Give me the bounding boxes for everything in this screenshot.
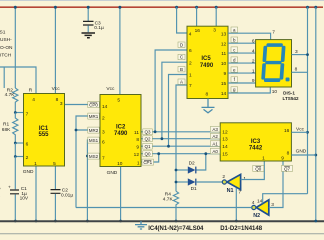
svg-text:B: B [180, 67, 183, 72]
input label box A3 [210, 126, 220, 132]
svg-text:S1: S1 [0, 30, 6, 36]
wire: R2 branch from Vcc rail down to pin7 node [14, 7, 16, 88]
node: N1 gnd junction [235, 220, 238, 223]
svg-text:MR1: MR1 [89, 114, 99, 119]
ground symbol on ground rail [135, 221, 147, 229]
node: rail junction IC5 pin3 [215, 6, 218, 9]
svg-text:7: 7 [238, 190, 241, 196]
node: rail junction R2 [14, 6, 17, 9]
svg-text:1: 1 [252, 68, 255, 74]
wire: segment d [228, 62, 256, 64]
wire: segment b [228, 42, 256, 44]
op IC5 7490 box [187, 26, 228, 98]
wire: right GND line from rail down to ground rail [315, 7, 317, 221]
node: D2 anode junction [175, 169, 178, 172]
svg-text:1: 1 [262, 156, 265, 162]
wire: N2 Vcc pin 14 riser to right Vcc line [263, 194, 308, 204]
seven segment digit 8 [261, 43, 286, 82]
svg-text:2: 2 [222, 174, 225, 180]
segment label box e [231, 67, 238, 72]
svg-text:16: 16 [284, 128, 290, 134]
wire: R2 to node pin7 [14, 103, 16, 113]
svg-text:14: 14 [102, 104, 108, 110]
node: pin2/C1 junction [14, 155, 17, 158]
svg-text:CP0: CP0 [89, 103, 98, 108]
svg-text:16: 16 [195, 28, 201, 34]
wire: D2 cathode riser to A0 bus [196, 154, 206, 170]
svg-text:7: 7 [102, 156, 105, 162]
svg-text:Vcc: Vcc [106, 86, 115, 92]
svg-text:3: 3 [60, 101, 63, 107]
input label box MR2 [88, 127, 100, 133]
op IC3 7442 box [220, 123, 291, 161]
svg-text:10: 10 [272, 89, 278, 95]
svg-text:GND: GND [296, 149, 307, 155]
wire: down to pin 2 node [14, 143, 16, 157]
svg-text:6: 6 [102, 140, 105, 146]
svg-text:IC2: IC2 [116, 125, 126, 131]
svg-text:12: 12 [222, 130, 228, 136]
wire: IC2 MR2 [76, 129, 100, 131]
svg-text:IC3: IC3 [251, 139, 261, 145]
wire: IC1 pin 5 down to C2 [54, 166, 56, 189]
segment label box d [231, 57, 238, 62]
wire: C3 to ground symbol [87, 26, 89, 33]
svg-text:MR2: MR2 [89, 128, 99, 133]
node: rail junction right Vcc line [306, 6, 309, 9]
capacitor C3 [83, 21, 94, 25]
segment label box g [231, 87, 238, 92]
node: IC3 Vcc junction [306, 131, 309, 134]
wire: segment c [228, 52, 256, 54]
svg-text:2: 2 [102, 116, 105, 122]
svg-text:A: A [180, 79, 183, 84]
node: pin1 ground junction [35, 220, 38, 223]
output label box Q0 (negated) [253, 165, 264, 171]
svg-text:ITCH: ITCH [0, 52, 12, 58]
segment label box f [231, 77, 238, 82]
svg-text:3: 3 [213, 27, 216, 33]
wire: IC1 pin 1 to ground rail [35, 166, 37, 221]
node: R2/R1/pin7 junction [14, 111, 17, 114]
svg-text:11: 11 [221, 51, 226, 57]
input label box MS1 [88, 137, 100, 143]
wire: IC5 pin4 feed from rail [177, 7, 187, 33]
svg-text:3: 3 [102, 130, 105, 136]
wire: C2 to ground rail [54, 194, 56, 221]
svg-text:12: 12 [221, 41, 227, 47]
svg-text:68K: 68K [2, 127, 11, 133]
node: rail junction IC1 Vcc [54, 6, 57, 9]
svg-text:1: 1 [34, 161, 37, 167]
svg-text:B: B [0, 186, 1, 192]
node: Q1 tap [167, 145, 170, 148]
resistor R1 [13, 113, 18, 144]
svg-text:Vcc: Vcc [296, 127, 305, 133]
node: D2/A0 junction [204, 152, 207, 155]
capacitor C2 [51, 190, 61, 194]
input label box A1 [210, 141, 220, 147]
svg-text:9: 9 [224, 71, 227, 77]
node: rail junction right line 2 [314, 6, 317, 9]
svg-text:6: 6 [252, 38, 255, 44]
wire: Vcc rail to IC2 pin 5 [119, 7, 121, 94]
svg-text:IC4(N1-N2)=74LS04: IC4(N1-N2)=74LS04 [148, 226, 204, 232]
node: MS junction [86, 155, 89, 158]
svg-text:9: 9 [252, 78, 255, 84]
output label box Q1 [143, 143, 153, 149]
svg-text:5: 5 [117, 97, 120, 103]
svg-text:LTS542: LTS542 [283, 96, 299, 101]
svg-text:7: 7 [189, 83, 192, 89]
node: rail junction IC5 pin16 [195, 6, 198, 9]
input label box A0 [210, 148, 220, 154]
wire: S1 stub at left edge [3, 67, 5, 88]
segment label box c [231, 47, 238, 52]
svg-text:R: R [29, 88, 33, 94]
op IC1 555 box [24, 94, 65, 167]
svg-text:3: 3 [295, 49, 298, 55]
output label box Q7 (negated) [282, 165, 293, 171]
svg-text:7490: 7490 [114, 131, 128, 137]
svg-text:4.7K: 4.7K [163, 196, 174, 202]
node: MR junction [75, 129, 78, 132]
svg-text:Q3: Q3 [144, 130, 151, 135]
node: pin10 ground junction [119, 220, 122, 223]
svg-text:DIS-1: DIS-1 [283, 90, 295, 95]
wire: bus Q2/A2 [141, 138, 220, 140]
svg-text:7442: 7442 [249, 145, 263, 151]
svg-text:A0: A0 [212, 149, 218, 154]
svg-text:8: 8 [287, 150, 290, 156]
wire: riser Q3 to IC5 input D [155, 50, 187, 132]
wire: IC2 MS1 and riser to ground rail [87, 140, 100, 221]
svg-text:Q0: Q0 [144, 152, 151, 157]
node: MS ground junction [86, 220, 89, 223]
wire: display pin 3 to Vcc line [292, 54, 308, 56]
wire: segment g to display pin10 [228, 87, 270, 93]
wire: IC2 pin 10 to ground rail [120, 167, 122, 222]
node: display anode junction [306, 53, 309, 56]
svg-text:7490: 7490 [200, 63, 214, 69]
svg-text:12: 12 [134, 152, 140, 158]
input label box CP0 (negated) [88, 102, 100, 108]
wire: riser IC5 input A down to diode junction and ground [176, 85, 187, 191]
svg-text:2: 2 [252, 58, 255, 64]
node: C1 ground junction [14, 220, 17, 223]
svg-text:D2: D2 [189, 161, 195, 167]
input label box A [178, 79, 185, 84]
wire: D2 anode [176, 169, 188, 171]
svg-text:MS1: MS1 [89, 138, 99, 143]
wire: N2 input from IC3 Q7 [269, 161, 283, 208]
svg-text:14: 14 [257, 198, 263, 204]
svg-text:GND: GND [23, 169, 34, 175]
svg-text:R1: R1 [3, 122, 9, 128]
svg-text:1: 1 [189, 73, 192, 79]
svg-text:10: 10 [221, 61, 227, 67]
node: rail junction C3 [87, 6, 90, 9]
svg-text:13: 13 [221, 31, 227, 37]
wire: IC5 pin3 feed from rail [215, 7, 217, 26]
node: rail junction IC5 pin4 [175, 6, 178, 9]
svg-text:0.01µ: 0.01µ [61, 192, 73, 198]
node: CP1/Q0 junction [157, 152, 160, 155]
svg-text:A1: A1 [212, 141, 218, 146]
wire: riser Q1 to IC5 input B [169, 75, 188, 147]
diode D1 [188, 178, 196, 185]
svg-text:14: 14 [222, 144, 228, 150]
wire: IC3 Vcc to right line [291, 131, 307, 133]
output label box Q0 [143, 151, 153, 157]
wire: right Vcc line from rail down to N2 Vcc branch [307, 7, 309, 194]
bubble N1 output [222, 180, 226, 184]
wire: N1 input from IC3 Q0 [241, 161, 265, 180]
svg-text:1: 1 [137, 160, 140, 166]
svg-text:9: 9 [281, 156, 284, 162]
input label box MR1 [88, 113, 100, 119]
svg-text:4: 4 [32, 97, 35, 103]
svg-text:6: 6 [26, 142, 29, 148]
svg-text:IC1: IC1 [39, 126, 49, 132]
ground symbol below C3 [82, 33, 96, 38]
svg-text:13: 13 [222, 137, 228, 143]
wire: IC1 pin 3 to IC2 CP0 [65, 104, 101, 106]
power rail Vcc (red, top) [0, 6, 323, 8]
inverter N2 (74LS04 gate, pointing left) [256, 200, 269, 215]
wire: node to IC1 pin 7 [15, 112, 23, 114]
node: Q3 tap [154, 130, 157, 133]
wire: segment e [228, 72, 256, 74]
wire: IC2 MR1 and riser to N2 output line [76, 116, 100, 208]
input label box MS2 [88, 153, 100, 159]
svg-text:15: 15 [221, 81, 227, 87]
node: C2 ground junction [54, 220, 57, 223]
ground symbol below IC5 [202, 99, 215, 113]
wire: node down to C1 [14, 157, 16, 190]
svg-text:USH-: USH- [0, 37, 12, 43]
diode D2 [188, 166, 196, 173]
output label box Q2 [143, 136, 153, 142]
node: D1 anode junction [175, 181, 178, 184]
wire: N1 gnd pin to ground rail [235, 188, 237, 221]
wire: C1 to ground rail [14, 195, 16, 222]
wire: bus Q1/A1 [141, 145, 220, 147]
svg-text:11: 11 [134, 130, 139, 136]
input label box B [178, 67, 185, 72]
node: R1/pin6 junction [14, 142, 17, 145]
capacitor C1 (electrolytic) [10, 190, 19, 194]
svg-text:0.1µ: 0.1µ [94, 25, 104, 31]
segment label box b [231, 37, 238, 42]
svg-text:8: 8 [206, 92, 209, 98]
wire: display pin 8 to Vcc line [292, 71, 308, 73]
node: Q2 tap [161, 137, 164, 140]
wire: IC2 MS2 [87, 155, 100, 157]
resistor R4 [173, 191, 178, 221]
svg-text:MS2: MS2 [89, 154, 99, 159]
input label box D [178, 42, 185, 47]
wire: IC3 GND to right line [291, 154, 315, 156]
svg-text:CP1: CP1 [143, 160, 152, 165]
input label box C [178, 54, 185, 59]
svg-text:10V: 10V [20, 196, 29, 202]
svg-text:14: 14 [221, 91, 227, 97]
ground rail (bottom) [0, 220, 324, 222]
wire: segment f [228, 82, 256, 84]
svg-text:D1-D2=1N4148: D1-D2=1N4148 [220, 226, 263, 232]
svg-text:Vcc: Vcc [52, 86, 61, 92]
svg-text:2: 2 [26, 155, 29, 161]
svg-text:8: 8 [136, 137, 139, 143]
bubble N2 output [252, 205, 256, 209]
display DIS-1 LTS542 box [256, 40, 292, 87]
svg-text:Q0: Q0 [255, 166, 262, 171]
wire: Vcc rail to IC1 pin 8 [54, 7, 56, 93]
input label box A2 [210, 133, 220, 139]
svg-text:4: 4 [252, 200, 255, 206]
svg-text:9: 9 [136, 145, 139, 151]
svg-text:D1: D1 [191, 186, 197, 192]
svg-text:7: 7 [272, 30, 275, 36]
svg-text:Q1: Q1 [144, 144, 151, 149]
output label box Q3 [143, 129, 153, 135]
svg-text:Q7: Q7 [284, 166, 291, 171]
svg-text:10: 10 [117, 161, 123, 167]
svg-text:4: 4 [189, 31, 192, 37]
wire: IC5 pin16 feed from rail [196, 7, 198, 26]
wire: riser Q2 to IC5 input C [162, 62, 187, 139]
node: junction S1 corner [0, 0, 1, 1]
svg-text:Q2: Q2 [144, 137, 151, 142]
inverter N1 (74LS04 gate, pointing left) [227, 174, 241, 189]
node: IC3 GND junction [314, 154, 317, 157]
svg-text:4.7K: 4.7K [5, 92, 16, 98]
wire: Vcc rail down to C3 [87, 7, 89, 21]
wire: segment a IC5 to display pin7 [228, 33, 271, 39]
svg-text:555: 555 [38, 132, 49, 138]
svg-text:2: 2 [189, 60, 192, 66]
segment label box a [231, 27, 238, 32]
svg-text:8: 8 [56, 97, 59, 103]
svg-text:A3: A3 [212, 127, 218, 132]
svg-text:N1: N1 [227, 188, 234, 194]
wire: D1 cathode to N1 output bubble [196, 181, 222, 183]
svg-text:7: 7 [26, 111, 29, 117]
svg-text:GND: GND [107, 170, 118, 176]
svg-text:8: 8 [295, 67, 298, 73]
wire: bus Q3/A3 [141, 131, 220, 133]
decimal point [286, 78, 290, 82]
wire: S1 line to IC1 pin 4 [0, 67, 36, 94]
node: GND line to ground rail [314, 220, 317, 223]
output label box CP1 (negated) [142, 159, 154, 165]
svg-text:IC5: IC5 [201, 56, 211, 62]
wire: node to IC1 pin 2 [15, 156, 23, 158]
svg-text:15: 15 [222, 152, 228, 158]
wire: N2 output long line to IC2 MR riser [76, 207, 252, 209]
svg-text:+: + [8, 186, 11, 191]
svg-text:N2: N2 [253, 213, 260, 219]
svg-text:5: 5 [53, 161, 56, 167]
resistor R2 [13, 88, 18, 103]
wire: D1 anode [176, 181, 188, 183]
wire: bus Q0/A0 [141, 153, 220, 155]
node: R4 ground junction [175, 220, 178, 223]
wire: CP1 to Q0 stub [141, 154, 159, 162]
node: rail junction IC2 Vcc [118, 6, 121, 9]
svg-text:4: 4 [252, 48, 255, 54]
wire: node to IC1 pin 6 [15, 142, 23, 144]
op IC2 7490 box [100, 95, 141, 167]
svg-text:A2: A2 [212, 134, 218, 139]
svg-text:6: 6 [189, 48, 192, 54]
svg-text:O-ON: O-ON [0, 45, 13, 51]
